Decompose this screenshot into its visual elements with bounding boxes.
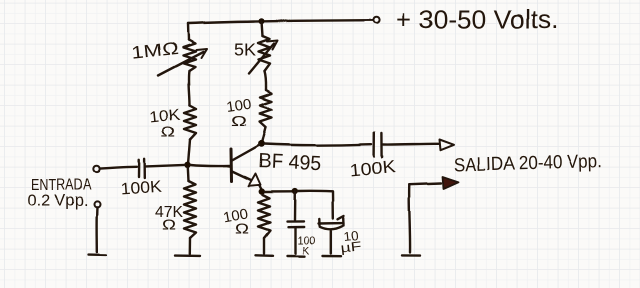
wire: input return down [95,207,98,252]
emitter lead [232,171,251,180]
wire: 100 to collector node [262,127,266,143]
svg-text:100K: 100K [120,178,162,199]
resistor R2 10K [184,105,196,139]
node: collector [258,140,265,147]
wire: base lead [191,165,231,166]
ground: 47K [175,254,200,257]
svg-text:Ω: Ω [231,114,247,130]
ground: emitter resistor [256,254,273,257]
wire: top power rail [188,20,373,23]
wire: 47K to ground [189,238,192,254]
collector lead [232,145,260,161]
resistor R4 100 (collector) [260,90,272,127]
capacitor C3 10uF (electrolytic) [318,220,321,227]
wire: emitter to bypass node [265,191,293,194]
terminal: input return [94,201,100,207]
arrow: SALIDA return (filled) [443,177,459,189]
svg-text:SALIDA 20-40 Vpp.: SALIDA 20-40 Vpp. [454,151,602,176]
svg-text:K: K [302,245,310,257]
emitter arrow [249,174,261,186]
svg-text:µF: µF [340,238,363,255]
capacitor C1 100K (input) [138,160,141,177]
transistor Q1 BF495: base bar [230,149,234,181]
resistor R6 47K [187,168,190,182]
resistor R1 1M (variable) [183,40,196,71]
ground: 10uF [323,255,342,258]
wire: 1M to 10K [188,71,189,105]
node: bypass junction [292,188,298,194]
node: emitter [259,188,265,194]
node: base junction [184,162,190,168]
arrow of 1M potentiometer [158,52,203,76]
wire: cap to base node [146,165,185,167]
wire: 5K to 100 [265,71,267,90]
ground: output return [402,254,420,257]
wire: rail to 1M [187,24,190,41]
wire: input to cap [100,167,137,169]
capacitor C4 100K (output coupling) [373,133,376,157]
svg-text:Ω: Ω [161,124,175,140]
terminal: input [93,166,99,172]
wire: R5 to ground [263,238,265,254]
wire: 10K to base node [188,139,190,164]
wire: return line to second arrow [409,183,441,184]
arrow: SALIDA output [440,140,455,151]
svg-text:BF 495: BF 495 [258,150,322,176]
ground: input [89,253,107,256]
node: rail junction [259,18,265,24]
svg-text:Ω: Ω [162,218,176,234]
wire: node to 10uF corner [298,191,333,219]
svg-text:5K: 5K [234,40,256,60]
terminal: +V supply [373,17,379,23]
capacitor C2 100K (bypass) [293,192,296,221]
svg-text:Ω: Ω [235,222,249,238]
wire: rail to 5K [262,21,263,36]
ground: bypass cap [287,255,305,258]
arrow of 5K potentiometer [249,44,274,74]
svg-text:+ 30-50 Volts.: + 30-50 Volts. [396,5,559,35]
wire: cap to arrow [384,143,439,146]
svg-text:0.2 Vpp.: 0.2 Vpp. [27,192,88,210]
resistor R5 100 (emitter) [258,195,270,238]
svg-text:100K: 100K [349,157,397,181]
resistor R3 5K (variable) [258,36,270,71]
wire: collector to output cap [265,144,372,145]
